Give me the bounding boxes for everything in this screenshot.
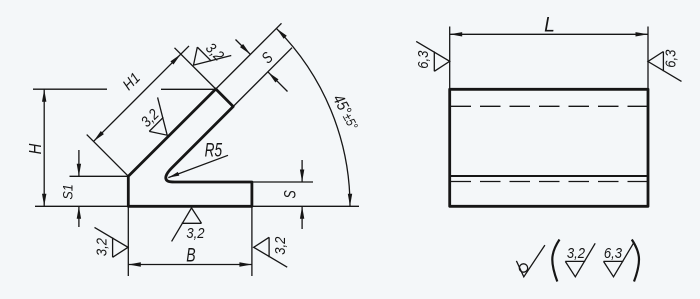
svg-text:S: S — [282, 190, 300, 198]
wire: S top extension — [252, 181, 313, 183]
dimension S (leg end) — [236, 40, 288, 92]
roughness 3,2 (end face, top) — [186, 34, 231, 79]
svg-text:3,2: 3,2 — [93, 238, 110, 256]
roughness 3,2 (leg outer edge) — [136, 97, 181, 142]
svg-text:R5: R5 — [205, 139, 223, 161]
roughness 3,2 (left end face, bottom left) — [93, 227, 128, 257]
svg-text:B: B — [186, 244, 195, 266]
wire: B right extension — [251, 206, 253, 276]
note: roughness 3,2 — [565, 243, 595, 277]
dimension H — [26, 89, 47, 206]
svg-text:3,2: 3,2 — [271, 236, 288, 254]
svg-text:H: H — [26, 143, 45, 154]
roughness 3,2 (right end face, bottom right) — [254, 236, 289, 267]
wire: L right extension — [647, 27, 649, 90]
svg-text:3,2: 3,2 — [186, 224, 204, 241]
wire: H1 lower extension line — [87, 135, 129, 177]
wire: baseline extension left — [35, 205, 128, 207]
wire: inner edge extension line (for S) — [233, 48, 292, 107]
svg-text:3,2: 3,2 — [203, 39, 228, 64]
svg-text:6,3: 6,3 — [604, 244, 622, 261]
roughness 3,2 (plate bottom, middle) — [172, 208, 205, 242]
roughness 6,3 (side view left) — [414, 41, 450, 71]
side view: hidden line top (dashed) — [451, 105, 649, 107]
dimension S (right of left view) — [282, 160, 304, 229]
dimension 45 deg arc — [276, 28, 361, 206]
wire: top extension line piece 2 (H) — [161, 88, 216, 90]
wire: baseline extension right — [252, 205, 359, 207]
note: open parenthesis — [552, 240, 559, 282]
side view: visible edge line (plate top) — [450, 175, 648, 177]
svg-text:S1: S1 — [60, 184, 76, 199]
svg-text:45°±5°: 45°±5° — [329, 92, 362, 133]
roughness 6,3 (side view right) — [648, 49, 682, 81]
note: roughness 6,3 — [604, 243, 634, 277]
svg-text:H1: H1 — [120, 70, 144, 94]
side view: hidden line bottom (dashed) — [451, 181, 649, 183]
leader R5 — [168, 139, 228, 177]
wire: B left extension — [127, 206, 129, 276]
wire: top extension line piece 1 (H) — [33, 88, 107, 90]
wire: outer edge extension line (to 45 deg arc) — [216, 23, 282, 89]
dimension B — [128, 244, 252, 267]
note: close parenthesis — [632, 240, 639, 282]
note: basic surface symbol with circle — [516, 245, 545, 277]
side view rectangle — [450, 89, 648, 206]
svg-text:6,3: 6,3 — [662, 49, 679, 67]
svg-text:3,2: 3,2 — [567, 244, 585, 261]
wire: S1 top extension — [70, 175, 129, 177]
part outline (left view, angle profile) — [128, 89, 252, 206]
wire: L left extension — [449, 27, 451, 90]
svg-text:S: S — [258, 48, 277, 67]
wire: end-cut extension line (for H1 upper) — [175, 48, 216, 89]
dimension H1 — [94, 46, 190, 141]
svg-text:6,3: 6,3 — [414, 50, 431, 68]
dimension S1 — [60, 150, 81, 227]
svg-text:L: L — [544, 14, 555, 37]
svg-text:3,2: 3,2 — [137, 105, 162, 130]
dimension L — [450, 14, 648, 37]
